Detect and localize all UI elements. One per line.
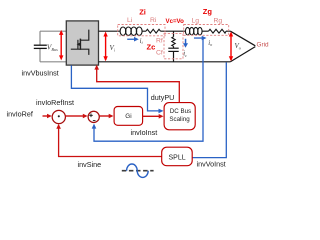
svg-text:Zg: Zg [203,7,213,16]
svg-text:Vc=Vo: Vc=Vo [166,18,185,25]
svg-text:Ri: Ri [150,17,157,24]
wire dc top rail [40,30,66,32]
wire invIoInst blue measure [94,38,203,141]
wire top rail inverter to grid [99,30,231,32]
capacitor Cf plates [168,48,178,51]
current arrow ii [127,37,139,42]
block Gi [114,107,143,126]
dashed box Zi [118,25,165,36]
wire dc bottom rail [40,61,66,63]
arrow Gi to DC bus scaling [143,114,164,119]
wire grid converge bottom [230,47,255,62]
wire invSine red from SPLL [59,127,162,157]
svg-text:Grid: Grid [257,42,270,49]
inductor Lg [185,27,202,35]
svg-text:Zc: Zc [147,43,156,52]
svg-text:invVoInst: invVoInst [197,159,226,168]
svg-text:invIoRef: invIoRef [7,109,33,118]
wire capacitor bottom lead [39,49,41,62]
wire invVbusInst blue to DC bus scaling [71,65,160,111]
arrow dutyPU into inverter [94,65,99,70]
svg-text:Cf: Cf [156,49,163,56]
svg-text:SPLL: SPLL [169,155,186,162]
wire dutyPU red feedback [97,67,180,103]
inductor Li [120,27,142,35]
current arrow ic [183,39,188,48]
measure arrow Vo [229,32,233,62]
summer plus sign [89,114,93,118]
svg-text:invVbusInst: invVbusInst [22,68,59,77]
arrow multiplier to summer [65,114,87,119]
wire bottom rail inverter to grid [99,61,231,63]
svg-text:Gi: Gi [125,113,131,120]
svg-text:invSine: invSine [78,160,102,169]
svg-text:invIoRefInst: invIoRefInst [36,98,74,107]
multiplier dot [58,115,60,117]
svg-text:invIoInst: invIoInst [131,128,158,137]
current arrow io [194,36,207,41]
resistor Ri [146,29,160,33]
block DC Bus Scaling [164,103,195,130]
wire invVoInst blue to SPLL [192,62,226,157]
sine wave source symbol [122,170,154,172]
arrow invIoInst into sum [92,124,97,129]
transistor Q1 (IGBT symbol) [71,30,89,55]
svg-text:Rf: Rf [156,38,163,45]
dashed box Zc [164,34,183,59]
measure arrow VBus [59,30,63,61]
wire capacitor top lead [39,31,41,45]
multiplier junction circle [52,110,65,123]
svg-text:Lg: Lg [192,18,200,25]
arrow summer to Gi [99,114,113,119]
arrow into DC bus scaling [159,109,164,114]
block SPLL [162,147,193,166]
arrow invSine into multiplier [56,124,61,129]
resistor Rf [172,37,175,47]
arrow invIoRef into multiplier [43,114,52,119]
node Vc branch wire [173,31,175,62]
summing junction circle [88,111,99,122]
resistor Rg [209,29,227,33]
inverter block [66,21,98,65]
svg-text:Li: Li [127,17,133,24]
svg-text:Zi: Zi [139,7,146,16]
svg-text:DC Bus: DC Bus [170,108,191,115]
sine wave [127,164,149,177]
measure arrow Vi [103,32,107,62]
svg-text:Scaling: Scaling [169,116,190,123]
dashed box Zg [184,25,229,36]
wire grid converge top [230,31,255,46]
summer minus sign [93,120,96,122]
transistor gate arrow [77,43,81,47]
capacitor Cdc plates [34,45,47,48]
svg-text:dutyPU: dutyPU [151,93,175,102]
svg-text:Rg: Rg [214,18,223,25]
